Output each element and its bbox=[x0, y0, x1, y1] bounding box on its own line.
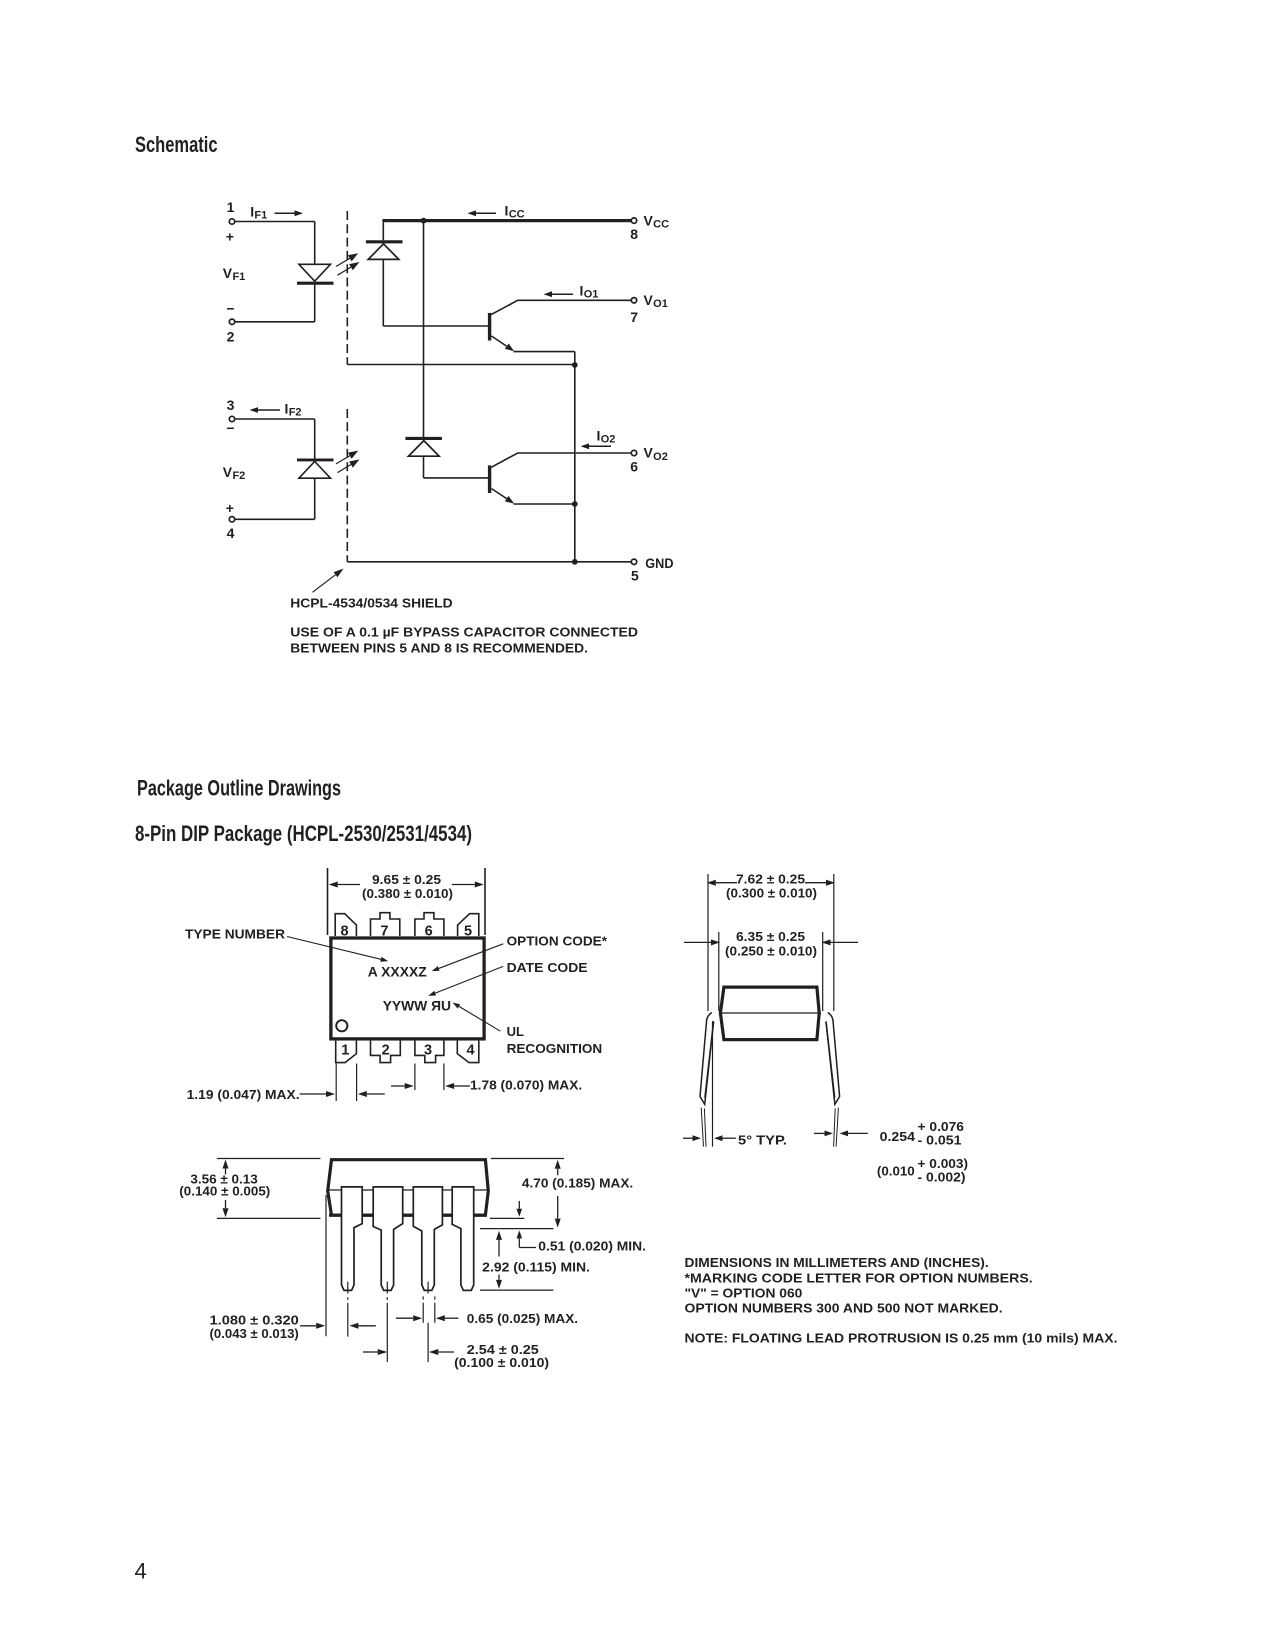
svg-text:OPTION CODE*: OPTION CODE* bbox=[507, 934, 608, 949]
svg-text:3: 3 bbox=[424, 1042, 432, 1058]
svg-text:7: 7 bbox=[380, 923, 388, 939]
svg-text:NOTE: FLOATING LEAD PROTRUSION: NOTE: FLOATING LEAD PROTRUSION IS 0.25 m… bbox=[685, 1331, 1118, 1346]
svg-text:4: 4 bbox=[467, 1042, 475, 1058]
svg-text:0.254: 0.254 bbox=[880, 1129, 916, 1144]
svg-text:1: 1 bbox=[341, 1042, 349, 1058]
svg-text:1: 1 bbox=[227, 199, 235, 215]
svg-text:(0.250 ± 0.010): (0.250 ± 0.010) bbox=[725, 943, 817, 958]
svg-text:4: 4 bbox=[135, 1559, 147, 1584]
svg-text:OPTION NUMBERS 300 AND 500 NOT: OPTION NUMBERS 300 AND 500 NOT MARKED. bbox=[685, 1301, 1003, 1316]
svg-text:7.62 ± 0.25: 7.62 ± 0.25 bbox=[736, 871, 805, 886]
svg-text:RECOGNITION: RECOGNITION bbox=[507, 1041, 603, 1056]
svg-text:5: 5 bbox=[464, 923, 472, 939]
svg-text:(0.043 ± 0.013): (0.043 ± 0.013) bbox=[210, 1326, 299, 1341]
svg-text:−: − bbox=[226, 300, 234, 316]
svg-text:6: 6 bbox=[425, 923, 433, 939]
svg-text:(0.300 ± 0.010): (0.300 ± 0.010) bbox=[726, 886, 817, 901]
svg-text:5: 5 bbox=[631, 568, 639, 584]
svg-text:6: 6 bbox=[630, 458, 638, 474]
svg-text:TYPE NUMBER: TYPE NUMBER bbox=[185, 927, 286, 942]
svg-text:8: 8 bbox=[341, 923, 349, 939]
svg-text:DIMENSIONS IN MILLIMETERS AND: DIMENSIONS IN MILLIMETERS AND (INCHES). bbox=[685, 1255, 989, 1270]
svg-text:(0.010: (0.010 bbox=[877, 1163, 915, 1178]
svg-text:USE OF A 0.1 µF BYPASS CAPACIT: USE OF A 0.1 µF BYPASS CAPACITOR CONNECT… bbox=[290, 625, 638, 640]
svg-text:−: − bbox=[226, 420, 234, 436]
svg-text:7: 7 bbox=[630, 309, 638, 325]
svg-text:(0.380 ± 0.010): (0.380 ± 0.010) bbox=[362, 886, 453, 901]
svg-text:0.51 (0.020) MIN.: 0.51 (0.020) MIN. bbox=[538, 1239, 646, 1254]
svg-text:+: + bbox=[226, 500, 234, 516]
svg-text:GND: GND bbox=[645, 555, 673, 571]
svg-text:1.080 ± 0.320: 1.080 ± 0.320 bbox=[210, 1312, 299, 1327]
svg-text:8: 8 bbox=[630, 226, 638, 242]
svg-text:Schematic: Schematic bbox=[135, 132, 218, 157]
svg-text:9.65 ± 0.25: 9.65 ± 0.25 bbox=[372, 872, 441, 887]
svg-text:A XXXXZ: A XXXXZ bbox=[368, 964, 427, 980]
svg-text:(0.140 ± 0.005): (0.140 ± 0.005) bbox=[179, 1183, 270, 1198]
svg-text:5° TYP.: 5° TYP. bbox=[738, 1132, 787, 1147]
svg-text:*MARKING CODE LETTER FOR OPTIO: *MARKING CODE LETTER FOR OPTION NUMBERS. bbox=[685, 1270, 1033, 1285]
svg-text:1.78 (0.070) MAX.: 1.78 (0.070) MAX. bbox=[470, 1077, 582, 1092]
svg-text:(0.100 ± 0.010): (0.100 ± 0.010) bbox=[454, 1355, 549, 1370]
svg-text:BETWEEN PINS 5 AND 8 IS RECOMM: BETWEEN PINS 5 AND 8 IS RECOMMENDED. bbox=[290, 640, 588, 655]
svg-text:DATE CODE: DATE CODE bbox=[507, 960, 588, 975]
svg-text:UL: UL bbox=[507, 1024, 524, 1039]
svg-text:0.65 (0.025) MAX.: 0.65 (0.025) MAX. bbox=[467, 1311, 578, 1326]
svg-text:+: + bbox=[226, 228, 234, 244]
svg-text:- 0.051: - 0.051 bbox=[918, 1132, 962, 1147]
svg-text:2: 2 bbox=[227, 329, 235, 345]
svg-text:3: 3 bbox=[227, 397, 235, 413]
svg-text:- 0.002): - 0.002) bbox=[918, 1170, 966, 1185]
svg-text:Package Outline Drawings: Package Outline Drawings bbox=[137, 776, 341, 801]
svg-text:4: 4 bbox=[227, 525, 235, 541]
svg-text:YYWW ЯU: YYWW ЯU bbox=[383, 997, 451, 1013]
svg-text:2.92 (0.115) MIN.: 2.92 (0.115) MIN. bbox=[482, 1260, 590, 1275]
svg-text:"V" = OPTION 060: "V" = OPTION 060 bbox=[685, 1285, 803, 1300]
svg-text:6.35 ± 0.25: 6.35 ± 0.25 bbox=[736, 929, 805, 944]
svg-text:1.19 (0.047) MAX.: 1.19 (0.047) MAX. bbox=[187, 1087, 300, 1102]
svg-text:HCPL-4534/0534 SHIELD: HCPL-4534/0534 SHIELD bbox=[290, 596, 452, 611]
svg-text:8-Pin DIP Package (HCPL-2530/2: 8-Pin DIP Package (HCPL-2530/2531/4534) bbox=[135, 821, 472, 846]
svg-text:4.70 (0.185) MAX.: 4.70 (0.185) MAX. bbox=[522, 1176, 633, 1191]
svg-text:2: 2 bbox=[382, 1042, 390, 1058]
